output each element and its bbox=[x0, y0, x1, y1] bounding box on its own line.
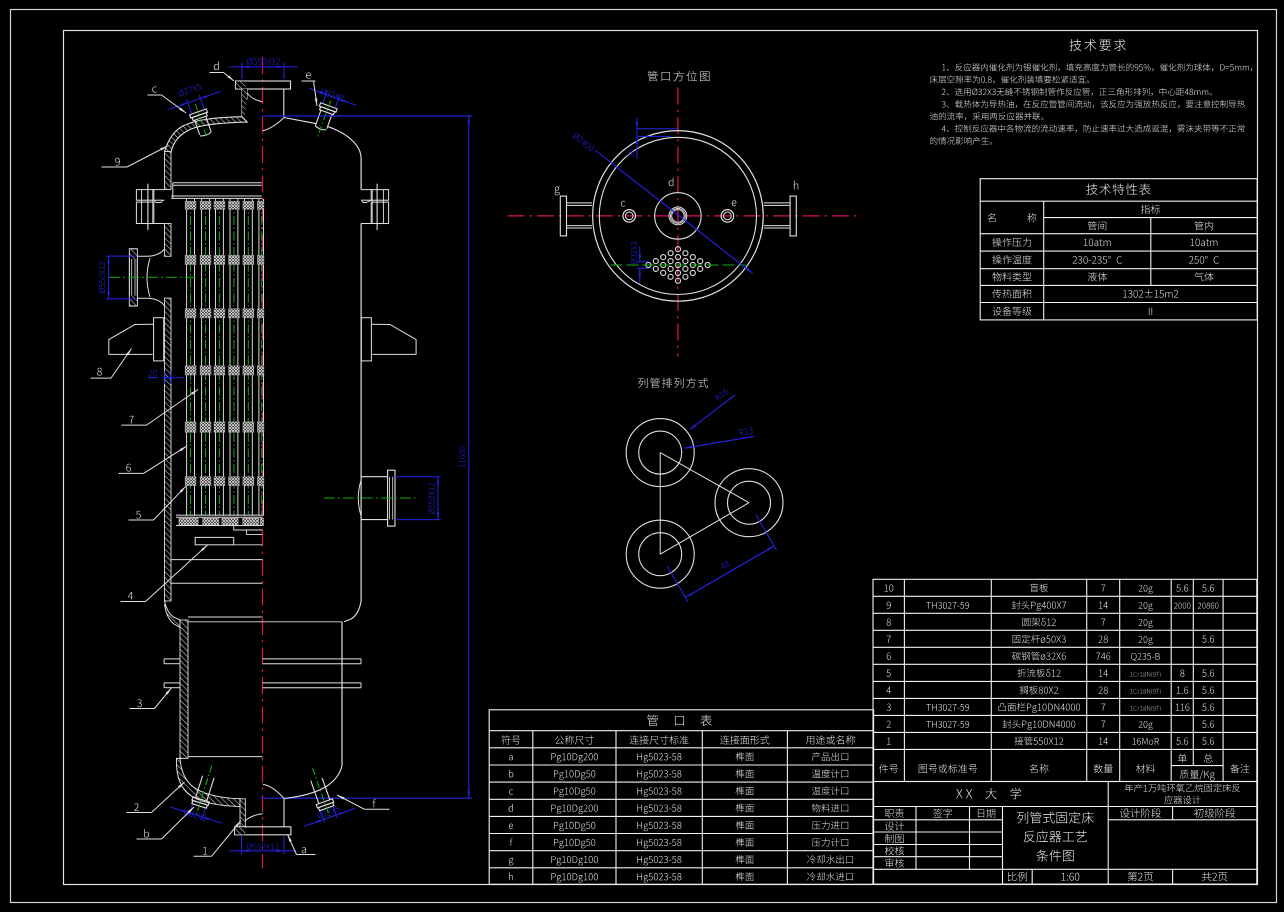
left nozzle phi550X12 flange bbox=[129, 249, 137, 306]
transition to lower shell, right bbox=[344, 601, 361, 622]
lower shell right wall bbox=[341, 622, 343, 766]
label phi550X12 left bbox=[99, 262, 105, 293]
label phi27X5 bbox=[178, 83, 202, 97]
nozzle a flange bbox=[235, 827, 291, 835]
bottom tube sheet bbox=[176, 514, 263, 516]
support lug left (item 8) bbox=[154, 318, 164, 361]
title block text bbox=[956, 788, 1021, 799]
nozzle h (right pipe + flange) bbox=[764, 202, 790, 204]
tube bundle: 6 tubes with green centerlines bbox=[187, 199, 264, 516]
left nozzle intersection arc with shell bbox=[147, 258, 150, 297]
label 20 ring bbox=[628, 149, 634, 157]
parts list grid bbox=[873, 579, 1257, 781]
part label 9 leader bbox=[102, 166, 128, 168]
part label b leader bbox=[137, 838, 162, 840]
girth flange weld lines (tube sheet top) bbox=[173, 182, 262, 184]
overall height dimension 11600 bbox=[263, 115, 473, 117]
transition to lower shell, left (hatched) bbox=[165, 601, 181, 628]
part label 2 leader bbox=[127, 812, 152, 814]
nozzle e (slanted, on right dome) bbox=[309, 98, 339, 141]
label e bbox=[306, 73, 311, 79]
upper shell right wall line bbox=[360, 159, 362, 190]
view title: tube arrangement bbox=[638, 378, 708, 388]
dimension phi27X5 at nozzle f bbox=[301, 800, 356, 829]
right nozzle phi550X12 (mid height) bbox=[361, 476, 388, 478]
tube hole pattern (diamond) bbox=[646, 247, 710, 284]
label d bbox=[214, 61, 219, 70]
nozzle d circles (center) bbox=[655, 193, 701, 239]
parts list rows text bbox=[884, 584, 893, 591]
dimension phi2400 diagonal bbox=[596, 151, 753, 274]
dimension R16 bbox=[690, 395, 735, 430]
dimension phi550X12 over nozzle d bbox=[241, 63, 243, 80]
label phi2400 bbox=[572, 132, 595, 152]
dimension phi32X3 at nozzle b bbox=[170, 798, 225, 826]
nozzle c circle bbox=[623, 210, 636, 223]
label phi32X3 at e bbox=[320, 88, 344, 102]
label 11600 bbox=[459, 446, 465, 467]
dimension phi550X12 right nozzle bbox=[395, 476, 441, 478]
nozzle b (slanted, bottom left) bbox=[188, 763, 220, 817]
part label 6 leader bbox=[119, 472, 144, 474]
orientation view centerlines bbox=[677, 88, 679, 357]
upper shell left wall (hatched section) bbox=[165, 152, 172, 190]
technical characteristics table text bbox=[1086, 183, 1150, 194]
label phi550X12 top bbox=[247, 58, 280, 65]
green line through tube row bbox=[611, 264, 746, 266]
dimension R13 bbox=[685, 436, 755, 448]
title block grid bbox=[873, 782, 1257, 885]
label R13 bbox=[739, 427, 753, 436]
top head right profile line bbox=[284, 118, 317, 124]
vessel outline circles bbox=[593, 131, 764, 302]
part label 3 leader bbox=[130, 708, 155, 710]
part label 4 leader bbox=[121, 601, 146, 603]
dimension phi32X3 at tube hole bbox=[637, 261, 649, 263]
part label 7 leader bbox=[122, 424, 147, 426]
label 20 bbox=[149, 370, 157, 376]
dimension phi550X12 left nozzle bbox=[106, 255, 137, 257]
bottom head right profile bbox=[284, 766, 342, 799]
nozzle d flange (top) bbox=[236, 81, 291, 89]
dimension 20 shell thickness bbox=[637, 128, 678, 130]
vessel vertical centerline bbox=[262, 58, 264, 869]
weld line at transition bbox=[188, 621, 342, 623]
label R16 bbox=[715, 388, 729, 401]
technical requirements text bbox=[942, 63, 1252, 71]
nozzle schedule table grid bbox=[489, 710, 873, 885]
part label f leader bbox=[365, 808, 390, 810]
dimension 48 (tube pitch) bbox=[756, 515, 777, 551]
nozzle d neck left wall (section) bbox=[241, 89, 243, 122]
nozzle c (slanted, on left dome) bbox=[187, 101, 215, 139]
label phi27X5 at f bbox=[317, 805, 340, 819]
nozzle g (left pipe + flange) bbox=[567, 202, 593, 204]
support ring 2 bbox=[164, 682, 180, 684]
pitch triangle lines bbox=[660, 453, 749, 503]
body flange + bolt, left side bbox=[136, 190, 153, 201]
right nozzle green centerline bbox=[324, 497, 416, 499]
nozzle f (slanted, bottom right) bbox=[304, 765, 337, 819]
body flange + bolt, right side bbox=[371, 190, 388, 201]
grid support steps below tube sheet bbox=[234, 526, 263, 531]
view title: nozzle orientation diagram bbox=[648, 71, 710, 81]
shelf plate (item 4) bbox=[195, 537, 234, 544]
part label 8 leader bbox=[91, 377, 112, 379]
bottom nozzle a neck (hatched walls) bbox=[240, 799, 245, 827]
top head left section band (hatched) bbox=[165, 117, 248, 153]
dimension phi32X3 at nozzle e bbox=[306, 85, 357, 114]
lower grid ring lines bbox=[171, 559, 262, 561]
label phi550X12 bottom bbox=[247, 844, 278, 850]
nozzle schedule rows bbox=[509, 755, 513, 760]
part label 1 leader bbox=[194, 855, 212, 857]
bottom head left section band (hatched) bbox=[176, 758, 240, 806]
support ring 1 (item 3) bbox=[164, 658, 180, 660]
technical characteristics table grid bbox=[980, 179, 1257, 320]
label phi32X3 holes bbox=[631, 242, 637, 263]
nozzle d neck right wall line bbox=[283, 89, 285, 118]
dimension 20 at wall bbox=[148, 377, 158, 379]
nozzle d far-side arc (right of centerline) bbox=[263, 118, 284, 131]
left nozzle green centerline bbox=[109, 276, 198, 278]
label c bbox=[152, 87, 157, 93]
orientation labels bbox=[555, 187, 560, 196]
nozzle schedule header bbox=[501, 735, 520, 744]
bottom head far-side arcs at nozzle a bbox=[245, 814, 262, 821]
dimension phi550X12 bottom bbox=[241, 836, 243, 855]
support lug right bbox=[361, 318, 371, 361]
left nozzle pipe lines bbox=[137, 249, 164, 256]
nozzle schedule title bbox=[647, 715, 712, 726]
baffle bands (cross-hatched boxes) on tubes bbox=[185, 201, 196, 209]
tube circles (triangular pitch) bbox=[626, 419, 694, 487]
part label a leader bbox=[297, 854, 316, 856]
dimension phi27X5 at nozzle c bbox=[167, 88, 225, 120]
label phi550X12 right bbox=[428, 483, 434, 514]
technical requirements title bbox=[1069, 39, 1126, 51]
label 48 bbox=[720, 560, 731, 570]
part label 5 leader bbox=[129, 519, 154, 521]
nozzle d inner arc to dome (left of centerline) bbox=[247, 93, 262, 102]
parts list header text bbox=[879, 764, 898, 773]
nozzle e circle bbox=[721, 210, 734, 223]
lower head interior line bbox=[188, 756, 263, 758]
label phi32X3 at b bbox=[183, 809, 207, 822]
